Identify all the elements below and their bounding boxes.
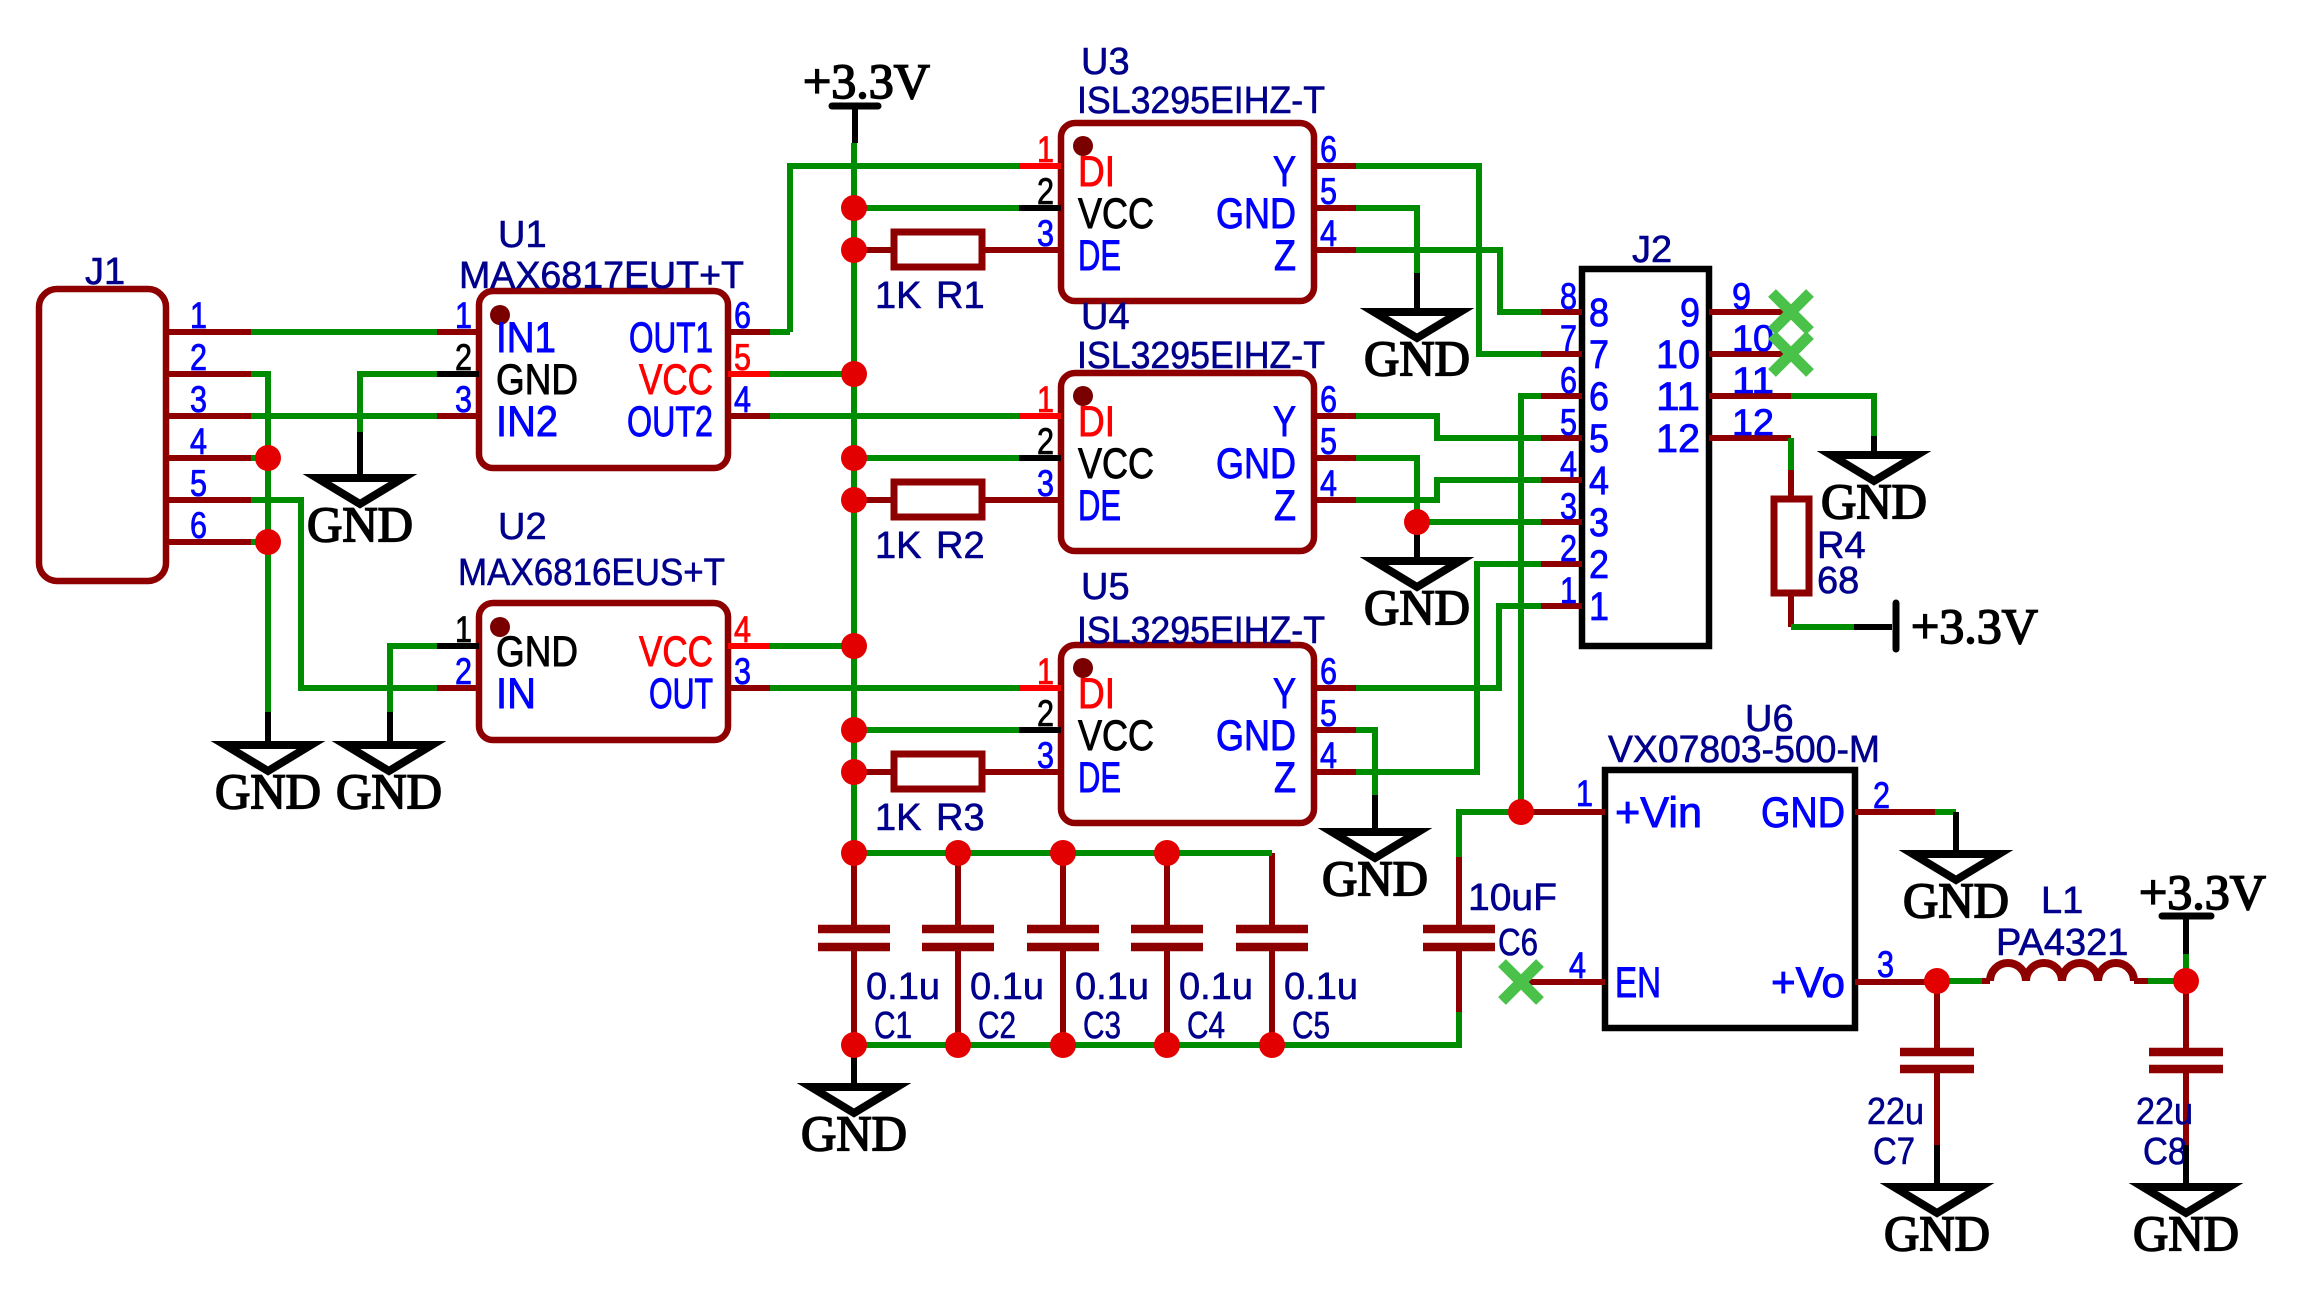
svg-text:GND: GND — [1821, 473, 1927, 529]
svg-text:GND: GND — [1216, 440, 1296, 488]
junction at 1937,981 — [1924, 968, 1950, 994]
svg-text:5: 5 — [734, 337, 751, 378]
svg-text:R2: R2 — [936, 525, 985, 567]
junction at 854,208 — [841, 195, 867, 221]
junction at 1417,522 — [1404, 509, 1430, 535]
svg-text:1: 1 — [455, 609, 472, 650]
junction at 958,1045 — [945, 1032, 971, 1058]
svg-text:0.1u: 0.1u — [1284, 966, 1358, 1008]
wire U2 VCC to +3.3V bus — [770, 643, 854, 649]
connector J2 — [1541, 229, 1791, 646]
power +3.3V top — [803, 53, 930, 143]
junction at 854,458 — [841, 445, 867, 471]
svg-text:VCC: VCC — [639, 356, 713, 404]
ground J2 pin11 — [1821, 455, 1927, 529]
no-connect U6 EN — [1502, 963, 1540, 1001]
junction at 1272,1045 — [1259, 1032, 1285, 1058]
svg-text:3: 3 — [1037, 735, 1054, 776]
svg-text:DE: DE — [1078, 482, 1121, 530]
svg-text:6: 6 — [1589, 375, 1609, 419]
svg-text:DI: DI — [1078, 670, 1115, 718]
svg-text:C4: C4 — [1187, 1005, 1225, 1047]
svg-text:J1: J1 — [85, 251, 125, 293]
svg-text:2: 2 — [455, 651, 472, 692]
capacitor C8 22u — [2136, 981, 2223, 1173]
svg-text:+Vin: +Vin — [1615, 789, 1702, 837]
svg-text:3: 3 — [734, 651, 751, 692]
svg-text:4: 4 — [190, 421, 207, 462]
svg-text:C5: C5 — [1292, 1005, 1330, 1047]
wire decoupling top bus — [854, 850, 1272, 856]
svg-text:7: 7 — [1560, 318, 1577, 359]
svg-text:22u: 22u — [2136, 1091, 2193, 1133]
svg-text:5: 5 — [1589, 417, 1609, 461]
svg-text:22u: 22u — [1867, 1091, 1924, 1133]
svg-text:Z: Z — [1274, 754, 1296, 802]
wire U2 GND to ground — [390, 646, 437, 745]
svg-text:2: 2 — [455, 337, 472, 378]
junction at 268,458 — [255, 445, 281, 471]
svg-text:3: 3 — [1589, 501, 1609, 545]
wire U6 +Vo to L1 — [1937, 978, 1990, 984]
svg-text:C1: C1 — [874, 1005, 912, 1047]
svg-text:VCC: VCC — [1078, 440, 1154, 488]
svg-text:2: 2 — [190, 337, 207, 378]
svg-text:9: 9 — [1732, 276, 1751, 317]
svg-text:C2: C2 — [978, 1005, 1016, 1047]
junction at 1167,1045 — [1154, 1032, 1180, 1058]
svg-text:6: 6 — [734, 295, 751, 336]
wire U4 Z to J2 pin4 — [1356, 480, 1541, 500]
svg-text:1: 1 — [1560, 570, 1577, 611]
wire decoupling bottom bus — [854, 1012, 1459, 1045]
svg-text:3: 3 — [1037, 213, 1054, 254]
junction at 854,1045 — [841, 1032, 867, 1058]
wire +3.3V to U5 VCC — [854, 727, 1019, 733]
svg-text:J2: J2 — [1632, 229, 1672, 271]
svg-text:DE: DE — [1078, 754, 1121, 802]
wire U2 OUT to U5 DI — [770, 685, 1019, 691]
svg-text:10: 10 — [1732, 318, 1774, 359]
ground U6 — [1903, 854, 2009, 928]
wire U5 Y to J2 pin1 — [1356, 606, 1541, 688]
connector J1 — [39, 251, 251, 581]
junction at 1521,812 — [1508, 799, 1534, 825]
svg-text:EN: EN — [1615, 959, 1661, 1007]
wire L1 to C8 node — [2134, 978, 2186, 984]
svg-text:C8: C8 — [2143, 1131, 2187, 1173]
svg-text:IN: IN — [496, 670, 536, 718]
svg-text:8: 8 — [1589, 291, 1609, 335]
svg-text:0.1u: 0.1u — [1075, 966, 1149, 1008]
wire U5 Z to J2 pin2 — [1356, 564, 1541, 772]
svg-text:ISL3295EIHZ-T: ISL3295EIHZ-T — [1077, 335, 1325, 377]
svg-text:GND: GND — [801, 1105, 907, 1161]
svg-text:VCC: VCC — [1078, 712, 1154, 760]
svg-text:4: 4 — [734, 609, 751, 650]
svg-text:12: 12 — [1732, 402, 1774, 443]
svg-text:6: 6 — [1320, 129, 1337, 170]
svg-text:ISL3295EIHZ-T: ISL3295EIHZ-T — [1077, 80, 1325, 122]
capacitor C4 0.1u — [1131, 853, 1253, 1047]
wire C8 node to +3.3V — [2183, 916, 2189, 981]
junction at 854,500 — [841, 487, 867, 513]
svg-text:Y: Y — [1273, 148, 1296, 196]
svg-text:2: 2 — [1589, 543, 1609, 587]
junction at 1167,853 — [1154, 840, 1180, 866]
svg-text:L1: L1 — [2041, 880, 2083, 922]
wire J1 pin3 to U1 IN2 — [251, 413, 437, 419]
svg-text:4: 4 — [1320, 735, 1337, 776]
resistor R4 68 — [1774, 438, 1866, 627]
svg-text:6: 6 — [1320, 379, 1337, 420]
svg-text:+Vo: +Vo — [1771, 959, 1845, 1007]
svg-text:+3.3V: +3.3V — [1911, 598, 2038, 654]
svg-text:R3: R3 — [936, 797, 985, 839]
capacitor C5 0.1u — [1236, 853, 1358, 1047]
svg-text:U5: U5 — [1081, 566, 1130, 608]
svg-text:4: 4 — [1589, 459, 1609, 503]
svg-text:1K: 1K — [875, 275, 921, 317]
svg-text:1K: 1K — [875, 525, 921, 567]
ground J1 — [215, 745, 321, 819]
svg-text:6: 6 — [1560, 360, 1577, 401]
svg-text:68: 68 — [1817, 560, 1859, 602]
svg-text:2: 2 — [1037, 693, 1054, 734]
ground J2 pin3 — [1364, 561, 1470, 635]
junction at 854,646 — [841, 633, 867, 659]
svg-text:1: 1 — [1037, 379, 1054, 420]
wire J2 pin11 to ground — [1791, 396, 1874, 455]
wire U4 GND to J2 pin3 junction — [1356, 458, 1541, 561]
junction at 268,542 — [255, 529, 281, 555]
svg-text:OUT2: OUT2 — [627, 398, 713, 446]
wire U4 Y to J2 pin5 — [1356, 416, 1541, 438]
svg-text:IN1: IN1 — [496, 314, 556, 362]
ground U1 — [307, 478, 413, 552]
junction at 1063,853 — [1050, 840, 1076, 866]
svg-text:GND: GND — [1364, 330, 1470, 386]
svg-text:2: 2 — [1037, 171, 1054, 212]
junction at 1063,1045 — [1050, 1032, 1076, 1058]
svg-text:10: 10 — [1656, 333, 1700, 377]
svg-text:1: 1 — [1037, 651, 1054, 692]
capacitor C7 22u — [1867, 981, 1974, 1173]
wire U1 OUT2 to U4 DI — [770, 413, 1019, 419]
svg-text:U2: U2 — [498, 506, 547, 548]
ground U2 — [336, 745, 442, 819]
svg-text:+3.3V: +3.3V — [803, 53, 930, 109]
svg-text:+3.3V: +3.3V — [2139, 864, 2266, 920]
svg-text:2: 2 — [1873, 775, 1890, 816]
wire +3.3V vertical bus — [851, 143, 857, 853]
svg-text:3: 3 — [190, 379, 207, 420]
svg-text:4: 4 — [734, 379, 751, 420]
resistor R3 1K — [854, 754, 1019, 839]
svg-text:3: 3 — [1877, 944, 1894, 985]
svg-text:VCC: VCC — [639, 628, 713, 676]
svg-text:3: 3 — [1037, 463, 1054, 504]
svg-text:3: 3 — [455, 379, 472, 420]
svg-text:GND: GND — [336, 763, 442, 819]
wire U6 GND to ground — [1935, 812, 1956, 854]
ground U3 — [1364, 312, 1470, 386]
ground C bus — [801, 1087, 907, 1161]
wire U1 GND to ground — [360, 374, 437, 478]
wire J1 pin2/4/6 ground chain — [251, 374, 268, 745]
svg-text:1K: 1K — [875, 797, 921, 839]
svg-text:GND: GND — [1216, 712, 1296, 760]
wire J1 pin5 to U2 IN — [251, 500, 437, 688]
svg-text:1: 1 — [1576, 773, 1593, 814]
no-connect J2 pin10 — [1772, 335, 1810, 373]
svg-text:8: 8 — [1560, 276, 1577, 317]
svg-text:1: 1 — [455, 295, 472, 336]
svg-text:IN2: IN2 — [496, 398, 558, 446]
wire U3 GND to ground — [1356, 208, 1417, 312]
svg-text:3: 3 — [1560, 486, 1577, 527]
svg-text:GND: GND — [496, 628, 578, 676]
wire J1 pin1 to U1 IN1 — [251, 329, 437, 335]
svg-text:12: 12 — [1656, 417, 1700, 461]
resistor R2 1K — [854, 482, 1019, 567]
svg-text:1: 1 — [1589, 585, 1609, 629]
svg-text:4: 4 — [1569, 945, 1586, 986]
IC U3 ISL3295EIHZ-T — [1019, 41, 1356, 301]
wire +3.3V to U3 VCC — [854, 205, 1019, 211]
svg-text:Y: Y — [1273, 398, 1296, 446]
svg-text:10uF: 10uF — [1468, 877, 1557, 919]
wire R4 to +3.3V — [1791, 624, 1892, 630]
ground C7 — [1884, 1145, 1990, 1261]
svg-text:0.1u: 0.1u — [866, 966, 940, 1008]
resistor R1 1K — [854, 232, 1019, 317]
svg-text:R1: R1 — [936, 275, 985, 317]
power +3.3V bottom right (L1/C8) — [2139, 864, 2266, 920]
svg-text:OUT1: OUT1 — [629, 314, 713, 362]
svg-text:GND: GND — [1761, 789, 1845, 837]
svg-text:GND: GND — [215, 763, 321, 819]
svg-text:11: 11 — [1656, 375, 1700, 419]
svg-text:Z: Z — [1274, 482, 1296, 530]
svg-text:VX07803-500-M: VX07803-500-M — [1608, 729, 1880, 771]
svg-text:4: 4 — [1560, 444, 1577, 485]
svg-text:U4: U4 — [1081, 296, 1130, 338]
svg-text:5: 5 — [1320, 421, 1337, 462]
svg-text:0.1u: 0.1u — [1179, 966, 1253, 1008]
wire U1 VCC to +3.3V bus — [770, 371, 854, 377]
svg-text:6: 6 — [1320, 651, 1337, 692]
capacitor C1 0.1u — [818, 853, 940, 1047]
svg-text:MAX6817EUT+T: MAX6817EUT+T — [459, 255, 744, 297]
svg-text:C7: C7 — [1873, 1131, 1915, 1173]
svg-text:1: 1 — [190, 295, 207, 336]
junction at 854,772 — [841, 759, 867, 785]
svg-text:DE: DE — [1078, 232, 1121, 280]
junction at 854,374 — [841, 361, 867, 387]
IC U6 VX07803-500-M — [1521, 698, 1937, 1028]
svg-text:ISL3295EIHZ-T: ISL3295EIHZ-T — [1077, 610, 1325, 652]
wire J2 pin6 to U6 +Vin — [1521, 396, 1541, 812]
svg-text:OUT: OUT — [649, 670, 713, 718]
IC U5 ISL3295EIHZ-T — [1019, 566, 1356, 823]
svg-text:DI: DI — [1078, 398, 1115, 446]
svg-text:C3: C3 — [1083, 1005, 1121, 1047]
power +3.3V right (R4) — [1896, 598, 2038, 654]
svg-text:GND: GND — [1884, 1205, 1990, 1261]
wire U3 Z to J2 pin8 — [1356, 250, 1541, 312]
capacitor C2 0.1u — [922, 853, 1044, 1047]
svg-text:9: 9 — [1680, 291, 1700, 335]
svg-text:DI: DI — [1078, 148, 1115, 196]
svg-text:VCC: VCC — [1078, 190, 1154, 238]
svg-text:GND: GND — [2133, 1205, 2239, 1261]
junction at 854,250 — [841, 237, 867, 263]
svg-text:U3: U3 — [1081, 41, 1130, 83]
wire +3.3V to U4 VCC — [854, 455, 1019, 461]
svg-text:5: 5 — [190, 463, 207, 504]
svg-text:6: 6 — [190, 505, 207, 546]
svg-text:GND: GND — [1364, 579, 1470, 635]
svg-text:0.1u: 0.1u — [970, 966, 1044, 1008]
svg-text:U1: U1 — [498, 214, 547, 256]
svg-text:GND: GND — [1903, 872, 2009, 928]
wire U5 GND to ground — [1356, 730, 1375, 832]
wire U1 OUT1 to U3 DI — [770, 166, 1019, 332]
wire bottom bus to ground — [851, 1053, 857, 1087]
IC U1 MAX6817EUT+T — [437, 214, 770, 468]
junction at 958,853 — [945, 840, 971, 866]
svg-text:5: 5 — [1560, 402, 1577, 443]
svg-text:C6: C6 — [1498, 922, 1538, 964]
ground C8 — [2133, 1145, 2239, 1261]
capacitor C6 10uF — [1423, 813, 1557, 1045]
wire U3 Y to J2 pin7 — [1356, 166, 1541, 354]
capacitor C3 0.1u — [1027, 853, 1149, 1047]
svg-text:4: 4 — [1320, 213, 1337, 254]
svg-text:4: 4 — [1320, 463, 1337, 504]
svg-text:1: 1 — [1037, 129, 1054, 170]
svg-text:11: 11 — [1732, 360, 1774, 401]
svg-text:Y: Y — [1273, 670, 1296, 718]
svg-text:GND: GND — [1216, 190, 1296, 238]
junction at 2186,981 — [2173, 968, 2199, 994]
wire U6 +Vin junction to C6 — [1459, 812, 1521, 857]
svg-text:2: 2 — [1560, 528, 1577, 569]
no-connect J2 pin9 — [1772, 293, 1810, 331]
svg-text:GND: GND — [307, 496, 413, 552]
IC U4 ISL3295EIHZ-T — [1019, 296, 1356, 551]
svg-text:GND: GND — [1322, 850, 1428, 906]
svg-text:Z: Z — [1274, 232, 1296, 280]
svg-text:GND: GND — [496, 356, 578, 404]
IC U2 MAX6816EUS+T — [437, 506, 770, 740]
ground U5 — [1322, 832, 1428, 906]
junction at 854,730 — [841, 717, 867, 743]
svg-text:5: 5 — [1320, 693, 1337, 734]
svg-text:MAX6816EUS+T: MAX6816EUS+T — [458, 552, 725, 594]
inductor L1 PA4321 — [1990, 880, 2134, 981]
svg-text:PA4321: PA4321 — [1996, 922, 2128, 964]
junction at 854,853 — [841, 840, 867, 866]
svg-text:5: 5 — [1320, 171, 1337, 212]
svg-text:2: 2 — [1037, 421, 1054, 462]
svg-text:7: 7 — [1589, 333, 1609, 377]
